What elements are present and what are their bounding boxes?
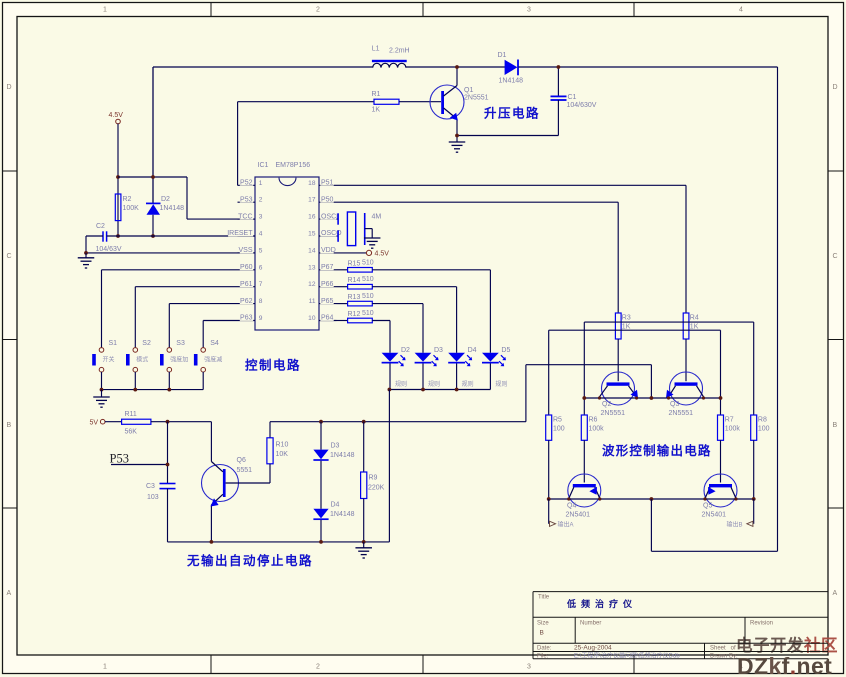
resistor R9 220K bbox=[361, 422, 385, 542]
transistor Q4 2N5401 bbox=[566, 474, 601, 519]
svg-text:E:\王程序\治疗仪器问题\低频治疗仪Ddb: E:\王程序\治疗仪器问题\低频治疗仪Ddb bbox=[574, 652, 680, 660]
pin 3 TCC bbox=[238, 212, 263, 221]
LED D4 bbox=[448, 347, 476, 390]
transistor Q5 2N5401 bbox=[702, 474, 738, 519]
svg-text:Q1: Q1 bbox=[464, 87, 473, 94]
svg-text:TCC: TCC bbox=[238, 213, 252, 220]
wire R2 top to TCC corner bbox=[118, 176, 187, 178]
svg-text:低频治疗仪: 低频治疗仪 bbox=[566, 598, 637, 609]
wire lower bridge rail bbox=[549, 498, 754, 500]
svg-text:1: 1 bbox=[259, 180, 263, 187]
junction Q2 legs bbox=[598, 396, 638, 399]
power terminal 5V bbox=[90, 419, 122, 426]
junction Q3 legs bbox=[667, 396, 705, 399]
svg-text:D5: D5 bbox=[501, 347, 510, 354]
svg-text:5V: 5V bbox=[90, 420, 99, 427]
svg-text:无输出自动停止电路: 无输出自动停止电路 bbox=[186, 553, 313, 568]
wire top-left drop to D2 column bbox=[152, 67, 154, 203]
svg-text:P63: P63 bbox=[240, 315, 253, 322]
zone ticks left bbox=[3, 171, 18, 508]
svg-text:P65: P65 bbox=[321, 298, 334, 305]
diode D3 1N4148 bbox=[313, 422, 354, 509]
svg-text:C3: C3 bbox=[146, 483, 155, 490]
svg-text:开关: 开关 bbox=[103, 356, 115, 364]
svg-text:升压电路: 升压电路 bbox=[484, 106, 540, 121]
svg-text:104/630V: 104/630V bbox=[567, 102, 597, 109]
resistor R2 100K bbox=[115, 194, 139, 221]
svg-text:R4: R4 bbox=[690, 315, 699, 322]
svg-text:C1: C1 bbox=[568, 94, 577, 101]
svg-text:510: 510 bbox=[362, 276, 374, 283]
wire P53 node down to C3 bbox=[167, 422, 169, 484]
pin 6 P60 bbox=[238, 263, 263, 272]
junction lower rail left bbox=[547, 497, 551, 501]
wire L1 to D1 bbox=[406, 66, 505, 68]
pin 7 P61 bbox=[238, 280, 263, 289]
svg-text:P60: P60 bbox=[240, 264, 253, 271]
pin 8 P62 bbox=[238, 297, 263, 306]
pin 13 P67 bbox=[308, 263, 336, 272]
svg-text:P61: P61 bbox=[240, 281, 253, 288]
wire cross-couple rail lower bbox=[549, 330, 721, 415]
resistor R4 1K bbox=[683, 185, 699, 381]
svg-text:C: C bbox=[7, 253, 12, 260]
op-amp IC1 EM78P156 body bbox=[255, 162, 319, 330]
resistor R12 510 bbox=[337, 310, 374, 323]
svg-text:DZkf.net: DZkf.net bbox=[737, 653, 832, 677]
svg-text:3: 3 bbox=[527, 664, 531, 671]
zone labels bottom bbox=[103, 664, 743, 671]
wire bridge bottom return to boost rail bbox=[651, 499, 777, 551]
svg-text:R12: R12 bbox=[348, 311, 361, 318]
wire top rail from node A to L1 bbox=[153, 66, 373, 68]
svg-text:波形控制输出电路: 波形控制输出电路 bbox=[602, 443, 712, 458]
svg-text:R13: R13 bbox=[348, 294, 361, 301]
svg-text:1N4148: 1N4148 bbox=[499, 78, 524, 85]
svg-text:File:: File: bbox=[537, 654, 549, 660]
svg-text:P67: P67 bbox=[321, 264, 334, 271]
junction Q4 legs bbox=[567, 497, 601, 500]
svg-text:EM78P156: EM78P156 bbox=[276, 162, 311, 169]
svg-text:2N5551: 2N5551 bbox=[464, 95, 489, 102]
svg-text:P53: P53 bbox=[110, 452, 129, 466]
wire IC P60 to switch S1 bbox=[102, 270, 238, 348]
svg-text:R9: R9 bbox=[369, 475, 378, 482]
svg-text:控制电路: 控制电路 bbox=[245, 358, 301, 373]
junction Q1 collector on rail bbox=[455, 65, 459, 69]
svg-text:8: 8 bbox=[259, 298, 263, 305]
svg-text:2N5401: 2N5401 bbox=[702, 512, 727, 519]
wire IC P61 to switch S2 bbox=[135, 287, 237, 348]
svg-text:Q6: Q6 bbox=[237, 457, 246, 464]
junction D2 top bbox=[151, 175, 155, 179]
zone labels top bbox=[103, 7, 743, 14]
svg-text:510: 510 bbox=[362, 310, 374, 317]
wire C2 left to ground corner bbox=[86, 236, 103, 253]
svg-text:S4: S4 bbox=[210, 340, 219, 347]
junction lower rail right bbox=[752, 497, 756, 501]
svg-text:R10: R10 bbox=[276, 442, 289, 449]
svg-text:Size: Size bbox=[537, 621, 549, 627]
svg-text:15: 15 bbox=[308, 231, 316, 238]
wire VSS line to IC pin 5 bbox=[86, 252, 255, 254]
junction LED rail left end bbox=[388, 388, 392, 392]
junction upper rail center bbox=[650, 396, 654, 400]
svg-text:R11: R11 bbox=[125, 411, 137, 418]
svg-text:9: 9 bbox=[259, 315, 263, 322]
junction R9 top bbox=[362, 420, 366, 424]
svg-text:10K: 10K bbox=[276, 451, 289, 458]
svg-text:1: 1 bbox=[103, 7, 107, 14]
svg-text:VDD: VDD bbox=[321, 247, 336, 254]
svg-text:R8: R8 bbox=[758, 417, 767, 424]
wire R11 to Q6 collector corner bbox=[151, 422, 212, 462]
junction upper rail right bbox=[719, 396, 723, 400]
svg-text:100k: 100k bbox=[589, 426, 605, 433]
svg-text:2: 2 bbox=[316, 664, 320, 671]
resistor R10 10K bbox=[226, 422, 289, 483]
svg-text:104/63V: 104/63V bbox=[96, 246, 122, 253]
junction R2 bottom on reset line bbox=[116, 234, 120, 238]
svg-text:P62: P62 bbox=[240, 298, 253, 305]
svg-text:P64: P64 bbox=[321, 315, 334, 322]
inductor L1 2.2mH bbox=[372, 46, 410, 68]
svg-text:规则: 规则 bbox=[395, 380, 407, 388]
junction switch rail ground node bbox=[100, 388, 104, 392]
svg-text:R2: R2 bbox=[123, 196, 132, 203]
svg-text:R6: R6 bbox=[589, 417, 598, 424]
wire cross-couple rail upper bbox=[584, 322, 753, 415]
svg-text:2N5551: 2N5551 bbox=[601, 410, 626, 417]
svg-text:4: 4 bbox=[259, 231, 263, 238]
wire P51 pin18 to R4 bbox=[337, 184, 687, 186]
power terminal 4.5V at VDD bbox=[337, 250, 390, 257]
resistor R11 56K bbox=[122, 411, 151, 436]
svg-text:Date:: Date: bbox=[537, 646, 552, 652]
wire P50 pin17 to R3 bbox=[337, 201, 619, 203]
junction Q6 emitter bottom bbox=[210, 540, 214, 544]
junction LED rail D4 bbox=[455, 388, 459, 392]
wire detector to bridge emitters corner bbox=[526, 365, 652, 422]
svg-text:220K: 220K bbox=[368, 485, 385, 492]
svg-text:Sheet of: Sheet of bbox=[710, 646, 736, 652]
wire LED cathode rail bbox=[389, 389, 490, 391]
wire D1 to boost output rail bbox=[519, 66, 778, 68]
svg-text:100: 100 bbox=[553, 426, 565, 433]
wire IC P62 to switch S3 bbox=[169, 304, 237, 348]
svg-text:D: D bbox=[7, 84, 12, 91]
svg-text:R1: R1 bbox=[372, 91, 381, 98]
svg-text:18: 18 bbox=[308, 180, 316, 187]
junction lower rail center bbox=[650, 497, 654, 501]
wire reset line C2 to IC pin 4 bbox=[107, 235, 255, 237]
svg-text:输出A: 输出A bbox=[558, 521, 574, 529]
LED D5 bbox=[482, 347, 510, 390]
junction R11 P53 node bbox=[166, 420, 170, 424]
svg-text:1N4148: 1N4148 bbox=[330, 511, 355, 518]
svg-text:P66: P66 bbox=[321, 281, 334, 288]
resistor R6 100k bbox=[581, 415, 604, 483]
power terminal 4.5V top-left bbox=[109, 112, 124, 236]
port output A bbox=[549, 499, 574, 529]
wire LED rail down to bottom rail bbox=[388, 390, 390, 542]
resistor R7 100k bbox=[718, 415, 741, 483]
wire corner down to TCC bbox=[186, 177, 188, 219]
svg-text:7: 7 bbox=[259, 281, 263, 288]
ground under switches bbox=[93, 390, 110, 408]
svg-text:12: 12 bbox=[308, 281, 316, 288]
svg-text:B: B bbox=[540, 630, 544, 637]
svg-text:D1: D1 bbox=[498, 52, 507, 59]
pin 9 P63 bbox=[238, 314, 263, 323]
svg-text:3: 3 bbox=[527, 7, 531, 14]
svg-text:D4: D4 bbox=[331, 502, 340, 509]
svg-text:S1: S1 bbox=[109, 340, 118, 347]
svg-text:2: 2 bbox=[259, 197, 263, 204]
title block grid bbox=[533, 592, 828, 659]
diode D4 1N4148 bbox=[313, 502, 354, 542]
svg-text:Q4: Q4 bbox=[567, 503, 576, 510]
diode D1 1N4148 bbox=[498, 52, 524, 85]
svg-text:S3: S3 bbox=[176, 340, 185, 347]
svg-text:103: 103 bbox=[147, 494, 159, 501]
junction Q1 emitter node bbox=[455, 134, 459, 138]
svg-text:Q2: Q2 bbox=[602, 401, 611, 408]
wire detector top rail bbox=[270, 421, 526, 423]
svg-text:510: 510 bbox=[362, 293, 374, 300]
svg-text:R3: R3 bbox=[622, 315, 631, 322]
wire to IC pin 3 TCC bbox=[187, 218, 255, 220]
svg-text:OSCI: OSCI bbox=[321, 213, 338, 220]
pin 4 IRESET bbox=[227, 229, 263, 238]
transistor Q1 2N5551 bbox=[430, 67, 489, 136]
svg-text:L1: L1 bbox=[372, 46, 380, 53]
resistor R3 1K bbox=[615, 202, 630, 381]
svg-text:100k: 100k bbox=[725, 426, 741, 433]
wire C1 bottom to Q1 emitter bbox=[457, 135, 558, 137]
wire bottom rail of detector bbox=[168, 541, 390, 543]
junction LED rail D3 bbox=[421, 388, 425, 392]
wire R15 to LED column bbox=[372, 270, 490, 353]
svg-text:强度加: 强度加 bbox=[170, 356, 188, 364]
svg-text:P53: P53 bbox=[240, 196, 253, 203]
pin 17 P50 bbox=[308, 195, 336, 204]
svg-text:D4: D4 bbox=[468, 347, 477, 354]
svg-text:1K: 1K bbox=[372, 107, 381, 114]
junction switch rail S2 bbox=[133, 388, 137, 392]
junction Q5 legs bbox=[703, 497, 737, 500]
switch S1 开关 bbox=[92, 340, 117, 390]
svg-text:D2: D2 bbox=[401, 347, 410, 354]
svg-text:B: B bbox=[833, 422, 838, 429]
pin 18 P51 bbox=[308, 178, 336, 187]
svg-text:1N4148: 1N4148 bbox=[160, 205, 185, 212]
title block texts bbox=[537, 595, 773, 660]
ground under Q1 bbox=[449, 136, 466, 153]
svg-text:A: A bbox=[833, 590, 838, 597]
svg-text:14: 14 bbox=[308, 247, 316, 254]
svg-text:Revision: Revision bbox=[750, 621, 773, 627]
svg-text:5: 5 bbox=[259, 247, 263, 254]
svg-text:1: 1 bbox=[103, 664, 107, 671]
pin 10 P64 bbox=[308, 314, 336, 323]
transistor Q6 5551 bbox=[202, 457, 253, 542]
resistor R15 510 bbox=[337, 259, 374, 272]
pin 14 VDD bbox=[308, 246, 336, 255]
svg-text:Q3: Q3 bbox=[670, 401, 679, 408]
svg-text:4.5V: 4.5V bbox=[109, 112, 124, 119]
diode D2 1N4148 bbox=[146, 67, 184, 236]
capacitor C3 103 bbox=[146, 483, 176, 542]
transistor Q3 2N5551 bbox=[666, 372, 704, 417]
pin 15 OSCO bbox=[308, 229, 342, 238]
svg-text:6: 6 bbox=[259, 264, 263, 271]
pin 12 P66 bbox=[308, 280, 336, 289]
svg-text:A: A bbox=[7, 590, 12, 597]
svg-text:P51: P51 bbox=[321, 180, 334, 187]
svg-text:Drawn By:: Drawn By: bbox=[710, 654, 738, 660]
junction D4 bottom bbox=[319, 540, 323, 544]
wire switch common rail bbox=[102, 389, 204, 391]
svg-text:1K: 1K bbox=[690, 324, 699, 331]
ground at crystal bbox=[364, 229, 381, 249]
svg-text:IRESET: IRESET bbox=[227, 230, 253, 237]
svg-text:2N5401: 2N5401 bbox=[566, 512, 591, 519]
crystal Y1 4M bbox=[337, 212, 382, 246]
svg-text:D2: D2 bbox=[161, 196, 170, 203]
svg-text:强度减: 强度减 bbox=[204, 356, 222, 364]
svg-text:4: 4 bbox=[739, 7, 743, 14]
capacitor C2 104/63V bbox=[96, 223, 122, 253]
wire R12 to LED column bbox=[372, 321, 390, 353]
wire IC P63 to switch S4 bbox=[203, 321, 237, 348]
junction upper rail left bbox=[582, 396, 586, 400]
svg-text:D3: D3 bbox=[434, 347, 443, 354]
svg-text:S2: S2 bbox=[142, 340, 151, 347]
switch S2 模式 bbox=[126, 340, 151, 390]
svg-text:Q5: Q5 bbox=[703, 503, 712, 510]
svg-text:100K: 100K bbox=[123, 205, 140, 212]
svg-text:R5: R5 bbox=[553, 417, 562, 424]
svg-text:D: D bbox=[833, 84, 838, 91]
zone ticks right bbox=[828, 171, 844, 508]
svg-text:4M: 4M bbox=[372, 214, 382, 221]
resistor R1 1K bbox=[238, 91, 441, 114]
wire upper bridge rail bbox=[584, 397, 720, 399]
svg-text:B: B bbox=[7, 422, 12, 429]
zone labels right bbox=[833, 84, 838, 597]
junction R2 top bbox=[116, 175, 120, 179]
wire R14 to LED column bbox=[372, 287, 456, 353]
zone ticks bottom bbox=[211, 655, 634, 674]
svg-text:3: 3 bbox=[259, 214, 263, 221]
zone ticks top bbox=[211, 3, 634, 17]
svg-text:R15: R15 bbox=[348, 260, 361, 267]
ground at VSS bbox=[78, 253, 95, 268]
svg-text:Number: Number bbox=[580, 621, 601, 627]
port output B bbox=[727, 499, 754, 529]
junction R9 bottom ground node bbox=[362, 540, 366, 544]
resistor R5 100 bbox=[546, 415, 565, 499]
svg-text:规则: 规则 bbox=[428, 380, 440, 388]
junction C1 top on rail bbox=[557, 65, 561, 69]
svg-text:1N4148: 1N4148 bbox=[330, 452, 355, 459]
svg-text:25-Aug-2004: 25-Aug-2004 bbox=[574, 645, 612, 652]
svg-text:VSS: VSS bbox=[238, 247, 252, 254]
svg-text:510: 510 bbox=[362, 259, 374, 266]
resistor R8 100 bbox=[751, 415, 770, 499]
switch S4 强度减 bbox=[194, 340, 222, 390]
pin 5 VSS bbox=[238, 246, 263, 255]
svg-text:模式: 模式 bbox=[136, 356, 148, 364]
LED D3 bbox=[415, 347, 443, 390]
resistor R14 510 bbox=[337, 276, 374, 289]
pin 1 P52 bbox=[238, 178, 263, 187]
svg-text:R7: R7 bbox=[725, 417, 734, 424]
svg-text:56K: 56K bbox=[125, 429, 138, 436]
svg-text:2.2mH: 2.2mH bbox=[389, 48, 410, 55]
svg-text:2: 2 bbox=[316, 7, 320, 14]
pin 2 P53 bbox=[238, 195, 263, 204]
pin 16 OSCI bbox=[308, 212, 338, 221]
zone labels left bbox=[7, 84, 12, 597]
svg-text:4.5V: 4.5V bbox=[375, 251, 390, 258]
resistor R13 510 bbox=[337, 293, 374, 306]
svg-text:10: 10 bbox=[308, 315, 316, 322]
svg-text:规则: 规则 bbox=[495, 380, 507, 388]
capacitor C1 104/630V bbox=[551, 67, 597, 136]
svg-text:11: 11 bbox=[309, 298, 316, 305]
svg-text:C: C bbox=[833, 253, 838, 260]
svg-text:输出B: 输出B bbox=[727, 521, 743, 529]
svg-text:D3: D3 bbox=[331, 443, 340, 450]
junction switch rail S3 bbox=[167, 388, 171, 392]
svg-text:17: 17 bbox=[308, 197, 316, 204]
svg-text:1K: 1K bbox=[622, 324, 631, 331]
ground at detector bottom bbox=[355, 542, 372, 558]
wire R1 to IC pin 1 P52 bbox=[237, 102, 239, 186]
svg-text:规则: 规则 bbox=[462, 380, 474, 388]
svg-text:P50: P50 bbox=[321, 196, 334, 203]
junction D3 top bbox=[319, 420, 323, 424]
svg-text:5551: 5551 bbox=[237, 467, 253, 474]
pin 11 P65 bbox=[309, 297, 337, 306]
svg-text:13: 13 bbox=[308, 264, 316, 271]
svg-text:P52: P52 bbox=[240, 180, 253, 187]
svg-text:R14: R14 bbox=[348, 277, 361, 284]
wire boost output drop right side bbox=[777, 67, 779, 551]
junction D2 anode on reset line bbox=[151, 234, 155, 238]
LED D2 bbox=[382, 347, 410, 390]
wire R13 to LED column bbox=[372, 304, 423, 353]
junction VSS ground node bbox=[84, 251, 88, 255]
svg-text:IC1: IC1 bbox=[258, 162, 269, 169]
svg-text:OSCO: OSCO bbox=[321, 230, 342, 237]
svg-text:16: 16 bbox=[308, 214, 316, 221]
net label P53 bbox=[110, 452, 168, 466]
junction P53 wire tap bbox=[166, 463, 170, 467]
svg-text:100: 100 bbox=[758, 426, 770, 433]
switch S3 强度加 bbox=[160, 340, 188, 390]
svg-text:Title: Title bbox=[538, 595, 550, 601]
svg-text:2N5551: 2N5551 bbox=[669, 410, 694, 417]
transistor Q2 2N5551 bbox=[600, 372, 639, 417]
svg-text:C2: C2 bbox=[96, 223, 105, 230]
